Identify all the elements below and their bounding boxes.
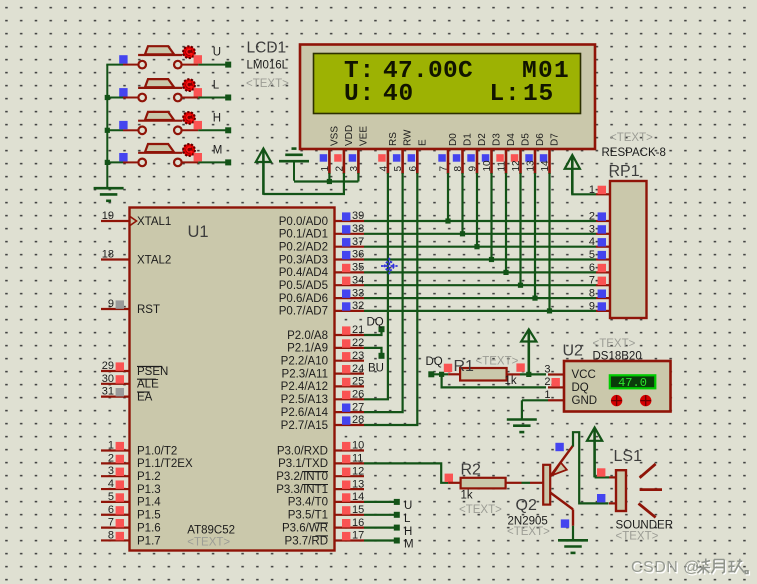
- U1 pin 28 P2.7/A15: [281, 414, 365, 432]
- U1 pin 22 P2.1/A9: [287, 337, 364, 355]
- svg-text:RS: RS: [388, 132, 399, 146]
- wire P2.0 net DQ: [364, 326, 385, 335]
- svg-text:P1.2: P1.2: [137, 471, 161, 483]
- label R1: [454, 358, 475, 375]
- wire LCD RS to P2.5: [364, 173, 388, 399]
- DS18B20 down button: [611, 395, 622, 406]
- RP1 pin 5: [589, 249, 610, 261]
- power arrow LCD VDD: [256, 149, 271, 195]
- svg-text:P0.2/AD2: P0.2/AD2: [279, 242, 328, 254]
- wire collector to ground: [572, 526, 574, 540]
- svg-text:H: H: [213, 112, 221, 124]
- svg-text:<TEXT>: <TEXT>: [610, 132, 653, 144]
- R1 right lead: [507, 373, 520, 375]
- state square collector node: [561, 519, 569, 527]
- LCD pin 7 D0 stub, number, state square: [438, 133, 459, 174]
- svg-text:29: 29: [102, 360, 114, 372]
- svg-text:VCC: VCC: [572, 369, 596, 381]
- label AT89C52: [187, 525, 235, 537]
- wire P2.1 net BU: [364, 348, 385, 359]
- LCD text line 2: [344, 81, 554, 108]
- wire LCD ground run: [294, 180, 358, 182]
- net label BU at P2.1: [368, 363, 384, 375]
- svg-text:P3.2/INT0: P3.2/INT0: [276, 471, 328, 483]
- U1 pin 3 P1.2: [101, 465, 161, 483]
- svg-text:3: 3: [108, 465, 114, 477]
- power arrow LS1: [587, 428, 602, 478]
- U1 pin 5 P1.4: [101, 491, 161, 509]
- wire LCD E to P2.7: [364, 173, 417, 425]
- svg-text:P1.0/T2: P1.0/T2: [137, 445, 177, 457]
- U1 pin 35 P0.4/AD4: [279, 262, 364, 280]
- svg-text:23: 23: [352, 350, 364, 362]
- svg-text:LM016L: LM016L: [247, 60, 289, 72]
- svg-text:9: 9: [108, 298, 114, 310]
- wire LCD VDD pin2 to power: [263, 173, 344, 194]
- svg-text:ALE: ALE: [137, 379, 159, 391]
- state square R1 left: [444, 364, 452, 372]
- svg-text:P1.1/T2EX: P1.1/T2EX: [137, 458, 193, 470]
- LCD pin 11 D4 stub, number, state square: [496, 133, 517, 174]
- LCD pin 12 D5 stub, number, state square: [511, 133, 532, 174]
- LCD pin 6 E stub, number, state square: [408, 139, 429, 174]
- svg-text:28: 28: [352, 414, 364, 426]
- wire AD2 bus: LCD D2 column to P0.2 row to RP1 pin 4: [364, 173, 596, 249]
- label 2N2905: [508, 516, 548, 528]
- svg-text:P2.5/A13: P2.5/A13: [281, 394, 328, 406]
- svg-text:19: 19: [102, 210, 114, 222]
- U1 pin 29 PSEN: [101, 360, 168, 378]
- svg-text:5: 5: [393, 166, 404, 172]
- svg-text:H: H: [404, 526, 412, 538]
- wire AD6 bus: LCD D6 column to P0.6 row to RP1 pin 8: [364, 173, 596, 301]
- label RP1: [609, 163, 640, 180]
- svg-text:DS18B20: DS18B20: [593, 351, 642, 363]
- U1 pin 13 P3.3/INT1: [276, 478, 364, 496]
- svg-text:D0: D0: [448, 133, 459, 146]
- U1 pin 25 P2.4/A12: [281, 376, 365, 394]
- svg-text:<TEXT>: <TEXT>: [507, 526, 550, 538]
- LS1 sound rays: [639, 464, 663, 518]
- label U2: [563, 343, 584, 360]
- state square emitter node: [555, 443, 563, 451]
- LCD pin 1 VSS stub, number, state square: [320, 126, 341, 174]
- svg-text:9: 9: [589, 300, 595, 312]
- svg-text:P0.3/AD3: P0.3/AD3: [279, 254, 328, 266]
- push button L with state squares and label: [106, 79, 231, 101]
- chip U1 AT89C52 body: [130, 208, 335, 551]
- svg-text:P0.6/AD6: P0.6/AD6: [279, 293, 328, 305]
- net label U at P3.4: [404, 500, 412, 512]
- U1 pin 4 P1.3: [101, 478, 161, 496]
- U1 pin 17 P3.7/RD: [285, 530, 365, 548]
- label DS18B20: [593, 351, 642, 363]
- U1 pin 6 P1.5: [101, 504, 161, 522]
- svg-text:33: 33: [352, 287, 364, 299]
- Q2 base lead: [530, 482, 543, 484]
- svg-text:<TEXT>: <TEXT>: [187, 537, 230, 549]
- svg-text:R1: R1: [454, 358, 475, 375]
- svg-text:P2.2/A10: P2.2/A10: [281, 356, 328, 368]
- svg-text:7: 7: [108, 517, 114, 529]
- svg-text:LCD1: LCD1: [247, 40, 287, 57]
- svg-text:13: 13: [526, 160, 537, 172]
- U1 pin 27 P2.6/A14: [281, 401, 365, 419]
- svg-text:2: 2: [108, 452, 114, 464]
- U1 pin 10 P3.0/RXD: [277, 440, 364, 458]
- svg-text:D7: D7: [550, 133, 561, 146]
- wire P3.4 net U: [364, 499, 400, 505]
- svg-text:P3.6/WR: P3.6/WR: [282, 522, 328, 534]
- svg-text:38: 38: [352, 223, 364, 235]
- svg-text:4: 4: [589, 236, 595, 248]
- wire AD0 bus: LCD D0 column to P0.0 row to RP1 pin 2: [364, 173, 596, 224]
- label &lt;TEXT&gt; R1: [476, 355, 519, 367]
- svg-text:<TEXT>: <TEXT>: [459, 504, 502, 516]
- svg-text:5: 5: [589, 249, 595, 261]
- label LCD1: [247, 40, 287, 57]
- U2 pin 2 DQ: [544, 376, 588, 394]
- wire P3.5 net L: [364, 512, 400, 518]
- svg-text:XTAL1: XTAL1: [137, 216, 171, 228]
- origin marker crosshair: [381, 258, 398, 275]
- power arrow RP1: [565, 155, 580, 194]
- svg-text:P1.6: P1.6: [137, 522, 161, 534]
- LCD display LCD1 LM016L body: [300, 45, 595, 150]
- svg-text:27: 27: [352, 401, 364, 413]
- svg-text:<TEXT>: <TEXT>: [246, 78, 289, 90]
- svg-text:14: 14: [352, 491, 364, 503]
- svg-text:<TEXT>: <TEXT>: [616, 530, 659, 542]
- svg-text:37: 37: [352, 236, 364, 248]
- wire AD5 bus: LCD D5 column to P0.5 row to RP1 pin 7: [364, 173, 596, 288]
- label Q2: [516, 497, 537, 514]
- RP1 pin 8: [589, 288, 610, 300]
- svg-text:P1.7: P1.7: [137, 535, 161, 547]
- U2 pin 1 GND: [544, 389, 597, 407]
- net label M at P3.7: [404, 539, 414, 551]
- RP1 pin 7: [589, 275, 610, 287]
- Q2 collector diagonal: [550, 493, 573, 510]
- svg-text:8: 8: [453, 166, 464, 172]
- U1 pin 2 P1.1/T2EX: [101, 452, 193, 470]
- svg-text:M: M: [213, 144, 223, 156]
- label &lt;TEXT&gt; LCD: [246, 78, 289, 90]
- net label DQ at R1: [426, 356, 443, 368]
- wire LCD VEE pin3 down: [357, 173, 359, 182]
- wire GND down: [521, 400, 523, 419]
- svg-text:P3.1/TXD: P3.1/TXD: [278, 458, 328, 470]
- svg-text:1k: 1k: [505, 375, 517, 387]
- LCD pin 4 RS stub, number, state square: [378, 132, 399, 174]
- DS18B20 up button: [640, 395, 651, 406]
- resistor pack RP1 body: [610, 181, 647, 318]
- RP1 pin 4: [589, 236, 610, 248]
- svg-text:Q2: Q2: [516, 497, 537, 514]
- resistor R1 body: [460, 368, 507, 381]
- svg-text:8: 8: [108, 529, 114, 541]
- svg-text:D1: D1: [463, 133, 474, 146]
- net label DQ at P2.0: [367, 317, 384, 329]
- U1 pin 39 P0.0/AD0: [279, 210, 364, 228]
- svg-text:7: 7: [439, 166, 450, 172]
- svg-text:XTAL2: XTAL2: [137, 254, 171, 266]
- svg-text:RW: RW: [403, 129, 414, 146]
- svg-text:P2.1/A9: P2.1/A9: [287, 343, 328, 355]
- wire button common bus: [105, 65, 110, 189]
- svg-text:25: 25: [352, 376, 364, 388]
- RP1 pin 2: [589, 211, 610, 223]
- wire AD1 bus: LCD D1 column to P0.1 row to RP1 pin 3: [364, 173, 596, 236]
- push button M with state squares and label: [106, 144, 231, 166]
- label R2: [461, 462, 482, 479]
- watermark CSDN: [631, 559, 749, 578]
- svg-text:15: 15: [352, 504, 364, 516]
- label &lt;TEXT&gt; U1: [187, 537, 230, 549]
- U1 pin 31 EA: [101, 386, 153, 404]
- svg-text:P0.7/AD7: P0.7/AD7: [279, 306, 328, 318]
- LCD pin 3 VEE stub, number, state square: [349, 126, 370, 174]
- Q2 collector lead down: [572, 509, 574, 525]
- U1 pin 21 P2.0/A8: [287, 324, 364, 342]
- svg-text:12: 12: [352, 465, 364, 477]
- svg-text:6: 6: [589, 262, 595, 274]
- ground LCD (inverted): [279, 149, 309, 181]
- svg-text:CSDN @: CSDN @: [631, 559, 700, 576]
- svg-text:32: 32: [352, 300, 364, 312]
- wire DQ down to DS18B20: [442, 374, 546, 387]
- wire R1 to DS18B20 VCC: [520, 372, 546, 377]
- RP1 pin 6: [589, 262, 610, 274]
- svg-text:15: 15: [523, 81, 554, 108]
- svg-text:34: 34: [352, 274, 364, 286]
- svg-text:P2.4/A12: P2.4/A12: [281, 381, 328, 393]
- DS18B20 temperature display: [610, 375, 656, 390]
- LCD screen: [314, 54, 581, 114]
- svg-text:P2.6/A14: P2.6/A14: [281, 407, 329, 419]
- svg-text:11: 11: [352, 453, 363, 465]
- wire P3.6 net H: [364, 525, 400, 531]
- U1 pin 36 P0.3/AD3: [279, 249, 364, 267]
- svg-text:E: E: [417, 139, 428, 146]
- net label L at P3.5: [404, 513, 411, 525]
- U1 pin 9 RST: [101, 298, 160, 316]
- label LS1: [614, 448, 643, 465]
- U1 pin 23 P2.2/A10: [281, 350, 365, 368]
- svg-text:4: 4: [379, 166, 390, 172]
- svg-text:VEE: VEE: [359, 126, 370, 146]
- svg-text:P3.3/INT1: P3.3/INT1: [276, 484, 328, 496]
- U1 pin 18 XTAL2: [101, 249, 171, 267]
- svg-text:P0.1/AD1: P0.1/AD1: [279, 229, 328, 241]
- RP1 pin 1: [589, 184, 610, 196]
- label &lt;TEXT&gt; Q2: [507, 526, 550, 538]
- U1 pin 8 P1.7: [101, 529, 161, 547]
- push button U with state squares and label: [106, 46, 231, 68]
- U1 pin 15 P3.5/T1: [288, 504, 365, 522]
- label &lt;TEXT&gt; RP1: [610, 132, 653, 144]
- svg-text:U2: U2: [563, 343, 584, 360]
- svg-text:LS1: LS1: [614, 448, 643, 465]
- LCD pin 2 VDD stub, number, state square: [334, 125, 355, 174]
- svg-text:M: M: [404, 539, 414, 551]
- wire DS18B20 GND pin1: [522, 399, 548, 401]
- ground DS18B20: [507, 420, 537, 433]
- LCD pin 14 D7 stub, number, state square: [540, 133, 561, 174]
- U1 pin 12 P3.2/INT0: [276, 465, 364, 483]
- label SOUNDER: [616, 520, 674, 532]
- svg-text:11: 11: [497, 161, 508, 172]
- R2 right lead: [506, 482, 522, 484]
- svg-text:U: U: [213, 47, 221, 59]
- U1 pin 19 XTAL1: [101, 210, 171, 228]
- svg-text:BU: BU: [368, 363, 384, 375]
- svg-text:P0.0/AD0: P0.0/AD0: [279, 216, 328, 228]
- svg-text:1k: 1k: [461, 489, 473, 501]
- label RESPACK-8: [602, 147, 666, 159]
- svg-text:R2: R2: [461, 462, 482, 479]
- svg-text:10: 10: [482, 160, 493, 172]
- svg-text:RESPACK-8: RESPACK-8: [602, 147, 666, 159]
- svg-text:VSS: VSS: [330, 126, 341, 146]
- svg-text:39: 39: [352, 210, 364, 222]
- svg-text:P2.7/A15: P2.7/A15: [281, 420, 328, 432]
- svg-text:6: 6: [408, 166, 419, 172]
- svg-text:21: 21: [352, 324, 364, 336]
- label U1: [188, 223, 209, 241]
- svg-text:P2.0/A8: P2.0/A8: [287, 330, 328, 342]
- RP1 pin 3: [589, 223, 610, 235]
- U1 pin 11 P3.1/TXD: [278, 453, 364, 471]
- svg-text:1: 1: [108, 440, 114, 452]
- svg-text:GND: GND: [572, 395, 598, 407]
- svg-text:L: L: [213, 80, 220, 92]
- svg-text:13: 13: [352, 478, 364, 490]
- LCD pin 9 D2 stub, number, state square: [467, 133, 488, 174]
- wire power to LS1 top: [595, 476, 609, 478]
- LS1 bottom lead: [609, 502, 616, 504]
- U1 pin 38 P0.1/AD1: [279, 223, 364, 241]
- power arrow R1/VCC: [521, 329, 536, 374]
- svg-text:36: 36: [352, 249, 364, 261]
- RP1 pin 9: [589, 300, 610, 312]
- state square R2 left: [445, 474, 453, 482]
- svg-text:12: 12: [511, 160, 522, 172]
- LCD pin 8 D1 stub, number, state square: [453, 133, 474, 174]
- svg-text:<TEXT>: <TEXT>: [476, 355, 519, 367]
- U1 pin 26 P2.5/A13: [281, 389, 365, 407]
- U1 pin 34 P0.5/AD5: [279, 274, 364, 292]
- U1 pin 33 P0.6/AD6: [279, 287, 364, 305]
- U1 pin 37 P0.2/AD2: [279, 236, 364, 254]
- wire DQ stub end: [428, 371, 448, 377]
- wire AD7 bus: LCD D7 column to P0.7 row to RP1 pin 9: [364, 173, 596, 314]
- svg-text:D5: D5: [521, 133, 532, 146]
- label &lt;TEXT&gt; LS1: [616, 530, 659, 542]
- svg-text:DQ: DQ: [367, 317, 384, 329]
- svg-text:VDD: VDD: [344, 125, 355, 146]
- svg-text:2: 2: [589, 211, 595, 223]
- svg-text:40: 40: [383, 81, 414, 108]
- svg-text:2: 2: [544, 376, 550, 388]
- svg-text:P3.0/RXD: P3.0/RXD: [277, 445, 328, 457]
- resistor R2 body: [461, 478, 506, 489]
- svg-text:AT89C52: AT89C52: [187, 525, 235, 537]
- svg-text:P0.5/AD5: P0.5/AD5: [279, 280, 328, 292]
- LCD pin 13 D6 stub, number, state square: [525, 133, 546, 174]
- svg-text:16: 16: [352, 517, 364, 529]
- label LM016L: [247, 60, 289, 72]
- svg-text:RST: RST: [137, 304, 160, 316]
- svg-text:8: 8: [589, 288, 595, 300]
- svg-text:P1.5: P1.5: [137, 510, 161, 522]
- Q2 emitter diagonal: [550, 446, 573, 477]
- svg-text:P3.5/T1: P3.5/T1: [288, 510, 328, 522]
- svg-text:3: 3: [544, 363, 550, 375]
- svg-text:L: L: [404, 513, 411, 525]
- svg-text:DQ: DQ: [572, 382, 589, 394]
- label &lt;TEXT&gt; U2: [593, 338, 636, 350]
- svg-text:2: 2: [335, 166, 346, 172]
- label 1k R1: [505, 375, 517, 387]
- svg-text:35: 35: [352, 262, 364, 274]
- svg-text:U1: U1: [188, 223, 209, 241]
- svg-text:3: 3: [349, 166, 360, 172]
- label 1k R2: [461, 489, 473, 501]
- U1 pin 7 P1.6: [101, 517, 161, 535]
- svg-text:L:: L:: [490, 81, 521, 108]
- svg-text:DQ: DQ: [426, 356, 443, 368]
- svg-text:<TEXT>: <TEXT>: [593, 338, 636, 350]
- svg-text:U:: U:: [344, 81, 375, 108]
- wire LCD RW to P2.6: [364, 173, 403, 412]
- wire AD3 bus: LCD D3 column to P0.3 row to RP1 pin 5: [364, 173, 596, 262]
- state square R1 right: [516, 363, 524, 371]
- sounder LS1 body: [616, 470, 626, 511]
- svg-text:P3.7/RD: P3.7/RD: [285, 535, 328, 547]
- wire R2 to Q2 base: [522, 482, 531, 484]
- svg-text:D3: D3: [492, 133, 503, 146]
- svg-text:5: 5: [108, 491, 114, 503]
- svg-text:24: 24: [352, 363, 364, 375]
- LCD pin 5 RW stub, number, state square: [393, 129, 414, 174]
- wire AD4 bus: LCD D4 column to P0.4 row to RP1 pin 6: [364, 173, 596, 275]
- svg-text:9: 9: [468, 166, 479, 172]
- svg-text:RP1: RP1: [609, 163, 640, 180]
- svg-text:31: 31: [102, 386, 114, 398]
- U1 pin 14 P3.4/T0: [288, 491, 365, 509]
- U2 pin 3 VCC: [544, 363, 595, 381]
- svg-text:PSEN: PSEN: [137, 366, 168, 378]
- svg-text:1: 1: [320, 166, 331, 172]
- ground button bus: [94, 188, 124, 201]
- svg-text:P1.4: P1.4: [137, 497, 161, 509]
- svg-text:30: 30: [102, 373, 114, 385]
- svg-text:17: 17: [352, 530, 364, 542]
- R2 left lead: [448, 482, 461, 484]
- wire LCD VSS pin1 down: [327, 173, 332, 184]
- svg-text:26: 26: [352, 389, 364, 401]
- svg-text:3: 3: [589, 223, 595, 235]
- svg-text:D4: D4: [506, 133, 517, 146]
- label &lt;TEXT&gt; R2: [459, 504, 502, 516]
- ground Q2 collector: [558, 540, 588, 553]
- svg-text:6: 6: [108, 504, 114, 516]
- U1 pin 16 P3.6/WR: [282, 517, 364, 535]
- U1 pin 1 P1.0/T2: [101, 440, 177, 458]
- svg-text:D2: D2: [477, 133, 488, 146]
- svg-text:P3.4/T0: P3.4/T0: [288, 497, 328, 509]
